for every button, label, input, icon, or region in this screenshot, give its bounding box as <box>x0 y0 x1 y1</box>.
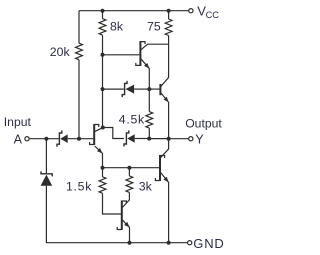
node dot output Y <box>167 137 171 141</box>
wire 75-ohm top leg <box>168 11 170 19</box>
transistor Q2 base bar <box>93 124 95 145</box>
diode D1 arrow <box>60 134 67 143</box>
svg-text:20k: 20k <box>50 45 71 59</box>
resistor R4 4.5k <box>146 112 153 129</box>
transistor Q3 schottky hook top <box>140 42 145 45</box>
terminal circle GND <box>188 241 192 245</box>
svg-text:Input: Input <box>4 115 32 129</box>
transistor Q3 emitter arrow <box>144 63 149 69</box>
wire 3k top leg <box>128 168 130 176</box>
node dot Q5 emitter rail <box>167 241 171 245</box>
wire squaring node to Q5 base <box>103 167 160 169</box>
terminal circle output Y <box>189 137 193 141</box>
wire Q3 emitter down to Q4 base node <box>141 59 149 89</box>
wire input terminal to clamp node <box>29 138 59 140</box>
node dot D3 tap <box>101 87 105 91</box>
resistor R2 8k <box>99 19 106 35</box>
transistor Q4 emitter arrow <box>164 97 169 103</box>
resistor R5 1.5k <box>99 177 106 194</box>
wire 75-ohm bottom to Q3/Q4 collector node <box>168 36 170 45</box>
wire D1 anode to 20k node and Q2 base <box>68 138 94 140</box>
node dot squaring 1.5k tap <box>101 166 105 170</box>
wire Q3 base from 8k node <box>103 54 140 56</box>
node dot 20k input tap <box>77 137 81 141</box>
diode D3 cathode schottky bar <box>122 81 127 97</box>
wire Q2 collector diagonal <box>95 128 103 132</box>
node dot Q4 base tap <box>147 87 151 91</box>
wire D3 cathode from 8k line <box>103 88 124 90</box>
node dot rail-8k <box>101 9 105 13</box>
wire Q4 emitter down to output node <box>161 93 169 139</box>
wire 8k bottom vertical through Q3 base node and D3 node to Q2 collector node <box>102 35 104 127</box>
node dot Q6 emitter rail <box>128 241 132 245</box>
wire 20k leg from rail <box>78 11 80 44</box>
wire Q4 base <box>149 88 159 90</box>
wire Q3 collector to 75-ohm node <box>141 44 169 50</box>
transistor Q2 schottky hook top <box>94 125 99 128</box>
wire 1.5k bottom to Q6 base <box>103 193 121 214</box>
svg-text:1.5k: 1.5k <box>66 179 92 193</box>
diode D1 cathode schottky bar <box>57 131 62 147</box>
node dot Q2 collector <box>101 126 105 130</box>
wire Q5 emitter to ground rail <box>161 172 169 242</box>
node dot 3k tap <box>127 166 131 170</box>
svg-text:4.5k: 4.5k <box>119 112 145 126</box>
svg-text:GND: GND <box>193 236 224 251</box>
transistor Q3 schottky hook bottom <box>136 63 141 66</box>
wire 4.5k bottom to output wire <box>148 128 150 138</box>
transistor Q5 base bar <box>159 155 161 181</box>
wire 1.5k top leg <box>102 168 104 177</box>
wire output node to Y terminal <box>169 138 189 140</box>
diode D4 input clamp schottky bar <box>41 171 52 176</box>
wire Q5 collector up to output node <box>161 139 169 158</box>
svg-text:A: A <box>14 132 23 146</box>
svg-text:3k: 3k <box>139 179 153 193</box>
transistor Q5 emitter arrow <box>163 177 168 183</box>
wire output node to 4.5k node <box>149 138 168 140</box>
svg-text:Y: Y <box>195 133 204 147</box>
resistor R6 3k <box>126 176 133 193</box>
transistor Q3 base bar <box>139 41 141 66</box>
transistor Q2 emitter arrow <box>97 148 103 153</box>
wire Q2 emitter down to squaring node <box>95 146 103 168</box>
terminal circle VCC <box>189 9 193 13</box>
node dot Q3 base tap <box>101 53 105 57</box>
diode D2 arrow <box>127 134 134 143</box>
diode D2 cathode schottky bar <box>124 130 129 146</box>
transistor Q4 base bar <box>159 84 161 95</box>
transistor Q6 schottky hook bottom <box>117 227 122 230</box>
svg-text:Output: Output <box>185 117 222 131</box>
wire 20k bottom to input node <box>78 60 80 139</box>
wire D2 step from Q2 collector node <box>103 128 124 139</box>
terminal circle input A <box>25 137 29 141</box>
svg-text:8k: 8k <box>110 20 124 34</box>
wire clamp diode leg from input node <box>45 139 47 174</box>
diode D4 clamp arrow <box>41 175 53 186</box>
wire D2 anode to 4.5k bottom node <box>135 138 150 140</box>
transistor Q5 schottky hook bottom <box>155 178 160 181</box>
wire 4.5k top leg from Q4 base node <box>148 89 150 112</box>
resistor R3 75 <box>165 19 172 36</box>
wire Q4 collector up to 75-ohm node <box>161 44 169 86</box>
wire clamp anode down and GND bottom rail <box>46 186 187 243</box>
transistor Q5 schottky hook top <box>160 156 165 159</box>
resistor R1 20k <box>76 43 83 60</box>
transistor Q6 schottky hook top <box>122 201 127 204</box>
wire 8k top leg <box>102 11 104 19</box>
wire Q6 emitter to ground rail <box>122 220 129 243</box>
node dot clamp tap <box>44 137 48 141</box>
wire VCC top rail <box>79 10 189 12</box>
diode D3 arrow <box>126 85 135 94</box>
node dot 4.5k-D2 tap <box>147 137 151 141</box>
transistor Q6 base bar <box>121 201 123 231</box>
wire 3k bottom to Q6 collector <box>122 192 129 207</box>
svg-text:75: 75 <box>147 20 161 34</box>
transistor Q2 schottky hook bottom <box>90 142 95 145</box>
node dot rail-75 <box>167 9 171 13</box>
wire D3 anode from Q4 base node <box>134 88 149 90</box>
svg-text:CC: CC <box>206 10 220 20</box>
transistor Q6 emitter arrow <box>124 222 129 228</box>
